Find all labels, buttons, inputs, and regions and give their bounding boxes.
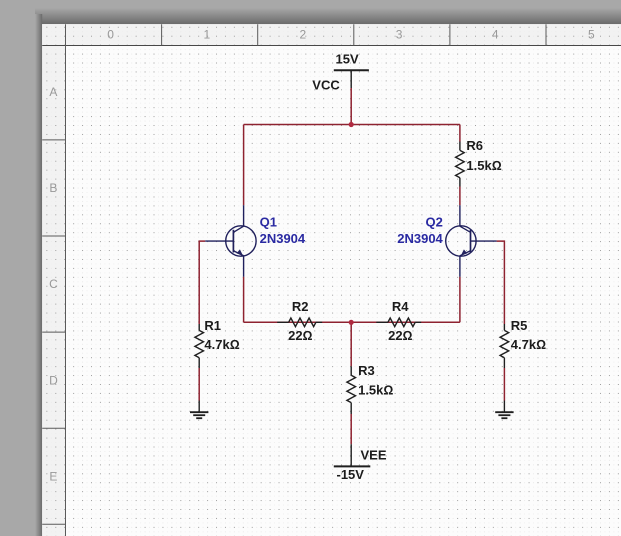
svg-text:VEE: VEE: [361, 447, 387, 462]
ruler band left: [42, 24, 65, 536]
resistor R4: [376, 318, 421, 327]
svg-text:R4: R4: [392, 299, 409, 314]
transistor Q1: [205, 205, 256, 276]
svg-text:1.5kΩ: 1.5kΩ: [466, 158, 501, 173]
svg-text:4: 4: [492, 28, 499, 42]
ruler band bottom border: [42, 45, 621, 47]
power VCC symbol: [334, 70, 369, 88]
svg-text:2N3904: 2N3904: [260, 231, 306, 246]
resistor R5: [500, 324, 509, 368]
wire Q2 base to R5: [497, 241, 505, 324]
sheet drop shadow left: [35, 14, 42, 536]
svg-text:4.7kΩ: 4.7kΩ: [511, 337, 546, 352]
wire Q1 base to R1: [199, 241, 205, 324]
svg-text:3: 3: [396, 28, 403, 42]
transistor Q2: [446, 205, 497, 276]
resistor R3: [347, 366, 356, 414]
wire Q1 emitter drop: [243, 277, 245, 323]
svg-text:R6: R6: [466, 138, 483, 153]
resistor R6: [456, 142, 465, 187]
ruler band top: [42, 24, 621, 45]
svg-text:22Ω: 22Ω: [388, 328, 412, 343]
svg-text:Q1: Q1: [260, 214, 277, 229]
ruler top ticks: [162, 24, 546, 45]
wire R5 to ground: [503, 368, 505, 401]
svg-text:15V: 15V: [336, 51, 359, 66]
svg-text:5: 5: [588, 28, 595, 42]
svg-text:2: 2: [300, 28, 307, 42]
wire right drop to R6: [459, 125, 461, 142]
svg-text:2N3904: 2N3904: [397, 231, 443, 246]
wire emitter rail: [244, 321, 460, 323]
svg-text:1: 1: [203, 28, 210, 42]
svg-text:1.5kΩ: 1.5kΩ: [358, 383, 393, 398]
wire junction to R3: [350, 322, 352, 366]
svg-text:R3: R3: [358, 363, 375, 378]
ruler band right border: [65, 24, 67, 536]
svg-text:0: 0: [107, 28, 114, 42]
wire R6 to Q2 collector: [459, 187, 461, 206]
svg-text:22Ω: 22Ω: [288, 328, 312, 343]
svg-text:D: D: [49, 373, 58, 387]
wire R3 to VEE: [350, 414, 352, 444]
junction node top: [349, 122, 354, 127]
svg-text:VCC: VCC: [312, 77, 340, 92]
svg-text:Q2: Q2: [425, 214, 442, 229]
svg-text:B: B: [49, 181, 57, 195]
wire VCC stem: [350, 88, 352, 125]
ruler left ticks: [42, 140, 65, 524]
svg-text:-15V: -15V: [337, 467, 365, 482]
wire Q2 emitter drop: [459, 277, 461, 323]
wire left collector drop: [243, 125, 245, 206]
ground right: [495, 401, 513, 419]
junction node emitter rail: [349, 320, 354, 325]
svg-text:4.7kΩ: 4.7kΩ: [204, 337, 239, 352]
wire top rail: [244, 124, 460, 126]
sheet drop shadow top: [35, 8, 621, 24]
resistor R2: [277, 318, 322, 327]
svg-text:R5: R5: [511, 318, 528, 333]
ground left: [190, 401, 208, 419]
svg-text:R1: R1: [204, 318, 221, 333]
svg-text:E: E: [49, 469, 57, 483]
svg-text:A: A: [49, 85, 57, 99]
svg-text:R2: R2: [292, 299, 309, 314]
wire R1 to ground: [198, 368, 200, 401]
svg-text:C: C: [49, 277, 58, 291]
power VEE symbol: [334, 444, 371, 466]
resistor R1: [195, 324, 204, 368]
